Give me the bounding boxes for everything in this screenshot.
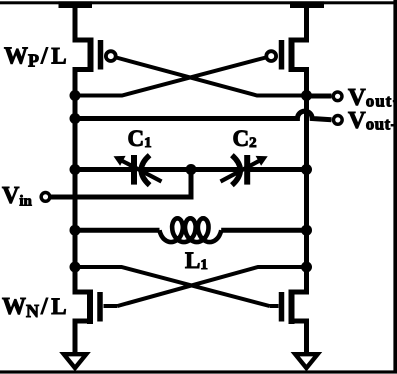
wire Vout+ stub: [307, 94, 332, 99]
node NMOS drain left junction: [70, 262, 81, 273]
node NMOS drain right junction: [301, 262, 312, 273]
wire cross-couple M2 gate to left drain: [75, 58, 266, 96]
wire inductor line right segment: [221, 228, 306, 233]
wire VDD to M1 source: [75, 6, 91, 40]
node Vout- line to left rail: [70, 113, 81, 124]
wire cross-couple M4 gate to left NMOS drain: [75, 267, 279, 306]
wire left rail (drain node down to NMOS): [73, 96, 78, 293]
transistor M2 PMOS right: [266, 38, 291, 73]
capacitor C1 varactor: [114, 155, 162, 185]
node tank left junction: [70, 164, 81, 175]
transistor M3 NMOS left: [75, 267, 100, 355]
node right drain junction: [301, 90, 312, 101]
node Vtune junction: [186, 164, 197, 175]
ground left: [64, 354, 86, 368]
inductor L1: [160, 218, 222, 242]
wire node Vtune to C2: [191, 167, 241, 172]
node inductor right junction: [301, 225, 312, 236]
wire C1 to node Vtune: [141, 167, 191, 172]
terminal Vin: [41, 193, 50, 202]
terminal Vout+: [333, 92, 342, 101]
wire Vin to Vtune node: [51, 170, 191, 198]
node tank right junction: [301, 164, 312, 175]
node inductor left junction: [70, 225, 81, 236]
transistor M1 PMOS left: [91, 38, 116, 73]
wire VDD to M2 source: [292, 6, 307, 40]
wire M1 drain to node Vout-: [75, 70, 91, 96]
wire cross-couple M1 gate to right drain: [116, 58, 306, 96]
wire right rail (drain node down to NMOS): [304, 96, 309, 293]
wire tank line right segment: [248, 167, 307, 172]
node left drain junction: [70, 90, 81, 101]
wire tank line left segment: [75, 167, 134, 172]
wire Vout- line with hop over right rail: [75, 111, 332, 120]
transistor M4 NMOS right: [282, 267, 307, 355]
terminal Vout-: [333, 116, 342, 125]
wire cross-couple M3 gate to right NMOS drain: [104, 267, 307, 306]
wire inductor line left segment: [75, 228, 160, 233]
power VDD bar right: [290, 1, 324, 8]
ground right: [295, 354, 317, 368]
power VDD bar left: [59, 1, 93, 8]
capacitor C2 varactor: [221, 155, 268, 185]
wire M2 drain to node Vout+: [292, 70, 307, 96]
